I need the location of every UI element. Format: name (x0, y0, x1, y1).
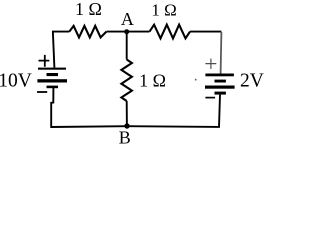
svg-text:10V: 10V (0, 71, 32, 92)
svg-text:1 Ω: 1 Ω (139, 71, 166, 91)
svg-text:1 Ω: 1 Ω (75, 0, 102, 19)
svg-text:2V: 2V (240, 71, 264, 92)
svg-text:B: B (119, 127, 131, 147)
svg-text:A: A (121, 9, 134, 29)
svg-text:1 Ω: 1 Ω (151, 0, 176, 19)
